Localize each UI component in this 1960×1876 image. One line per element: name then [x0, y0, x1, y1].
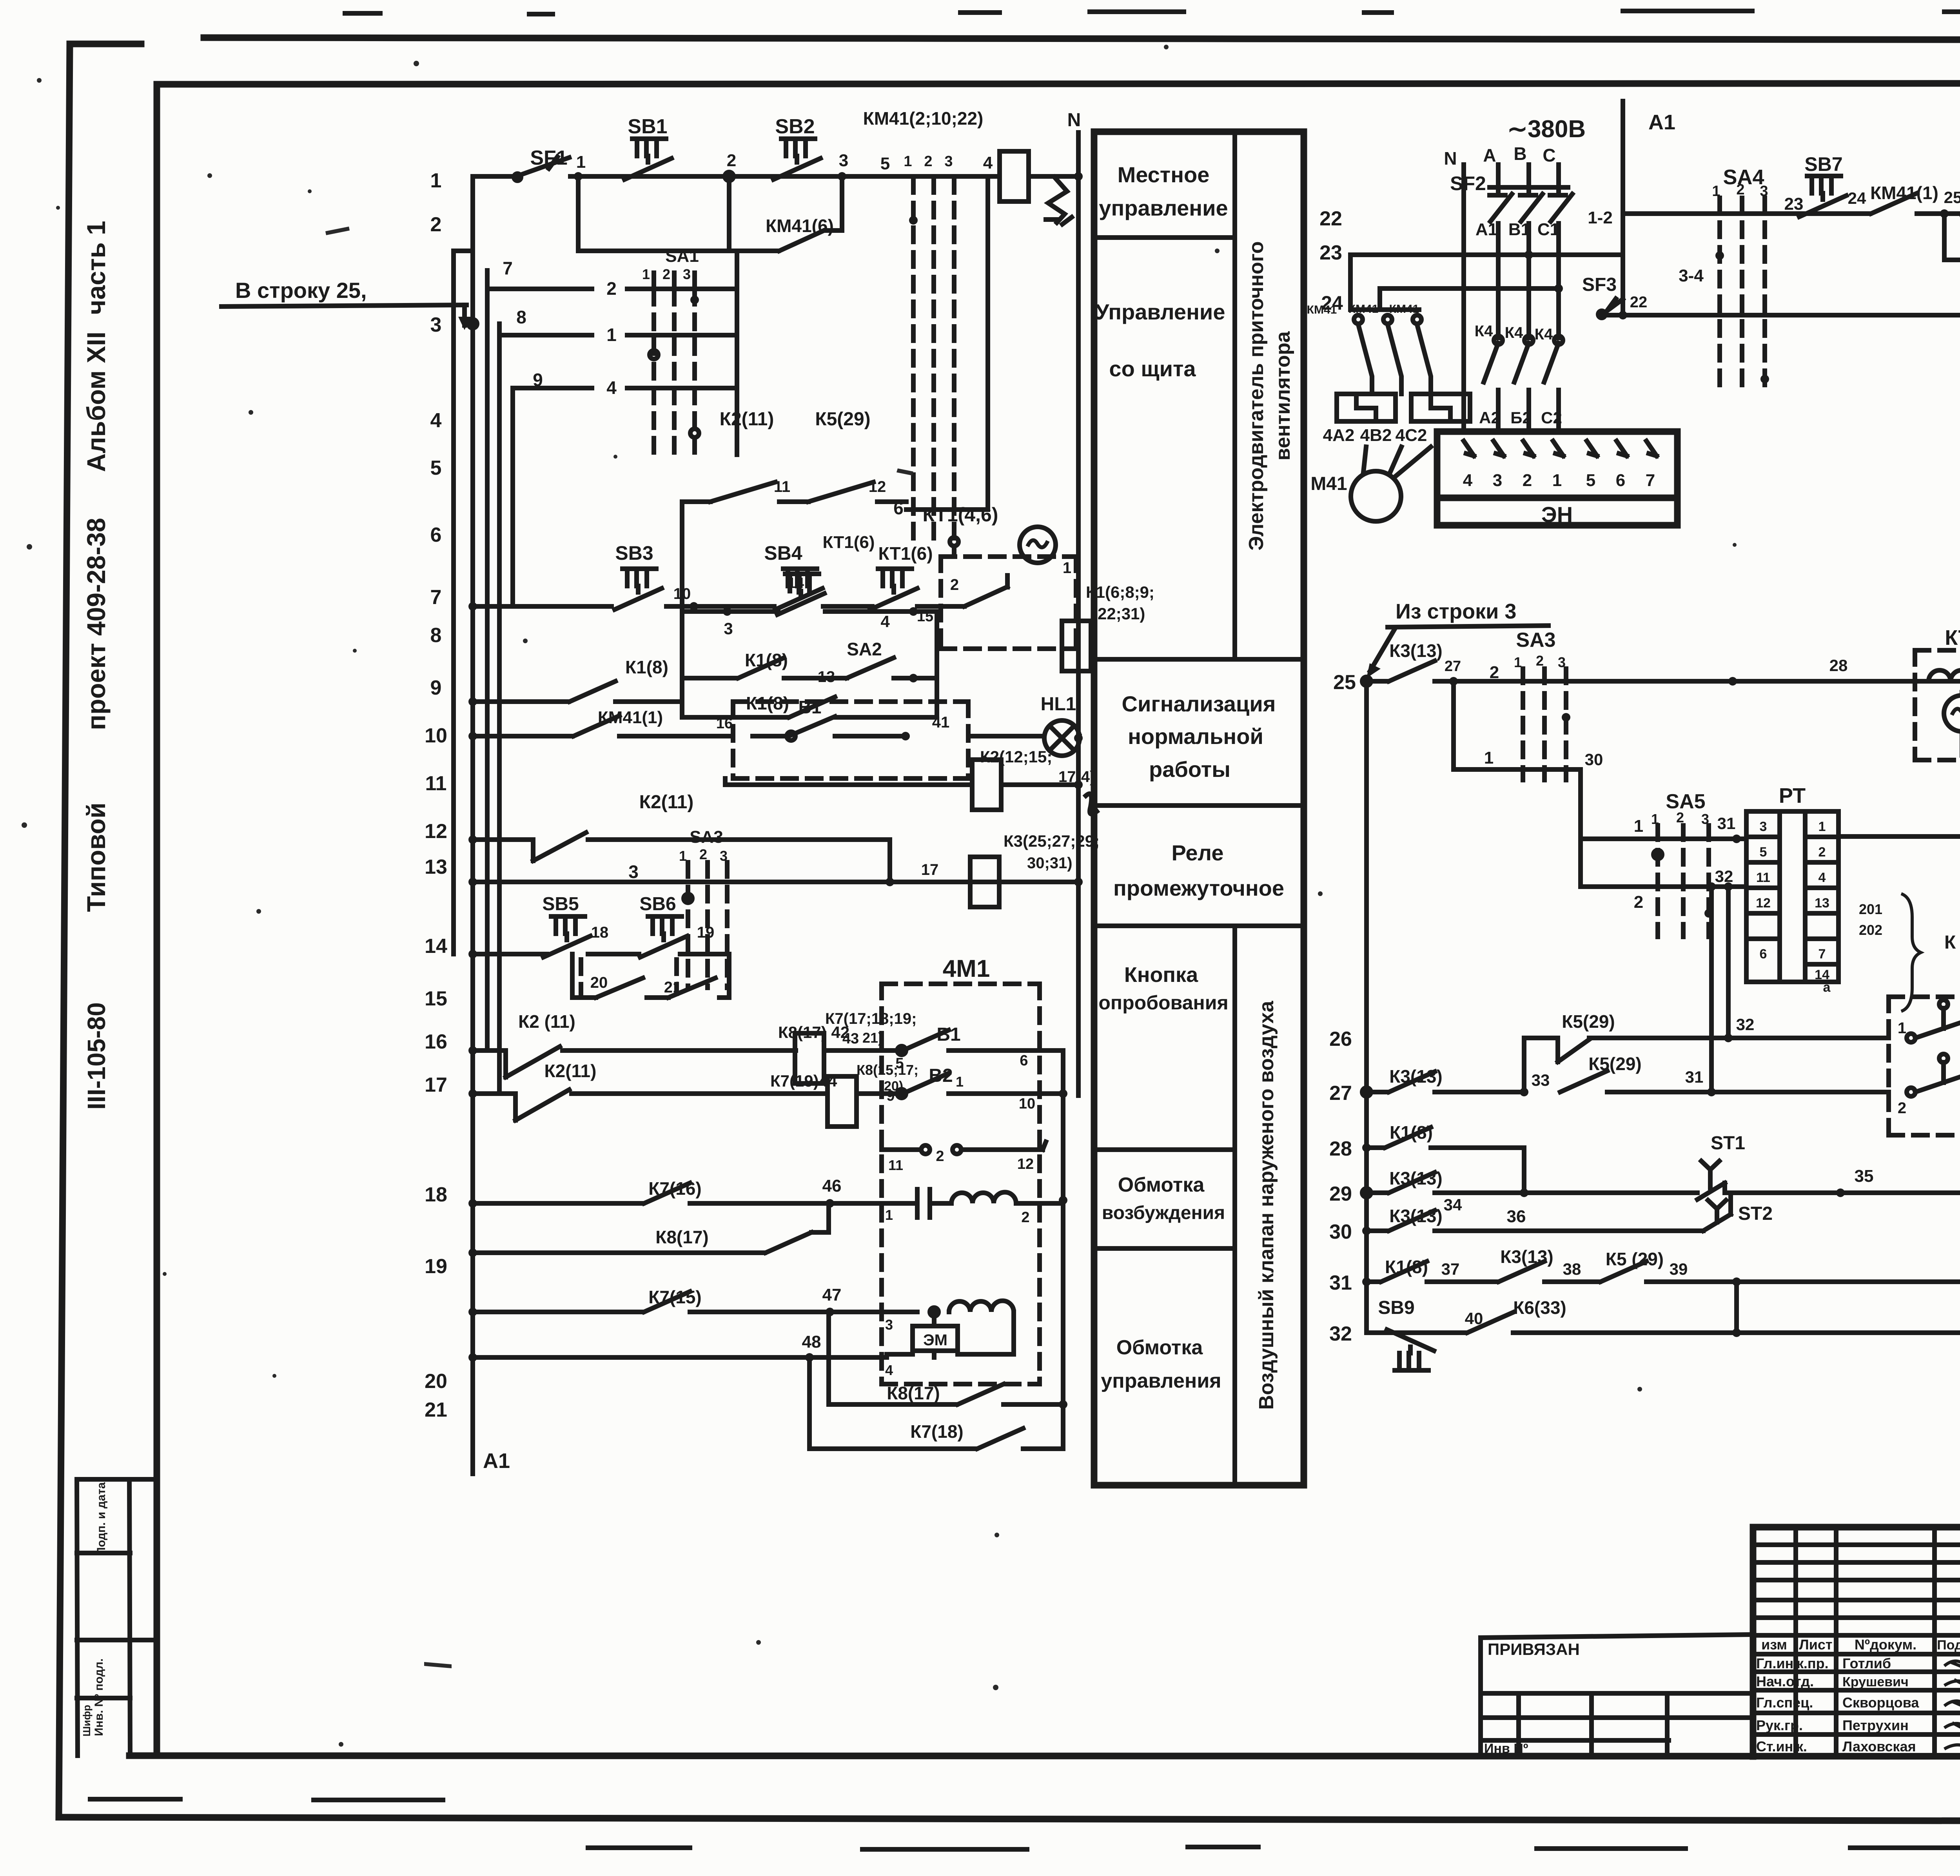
svg-text:22: 22	[1319, 207, 1342, 230]
svg-text:К6(33): К6(33)	[1513, 1297, 1566, 1318]
row 25 wire	[1367, 661, 1960, 681]
svg-text:Лист: Лист	[1799, 1637, 1832, 1653]
svg-text:К2(11): К2(11)	[639, 792, 694, 813]
svg-text:4: 4	[606, 377, 617, 398]
svg-text:43: 43	[842, 1031, 859, 1047]
svg-text:К2(12;15;: К2(12;15;	[980, 747, 1052, 766]
arrow to row 3	[462, 305, 467, 325]
svg-text:2: 2	[1536, 653, 1544, 669]
brace to sensor	[1901, 894, 1921, 1011]
svg-text:Подпись: Подпись	[1937, 1638, 1960, 1653]
svg-text:25: 25	[1333, 671, 1356, 694]
svg-text:Ст.инж.: Ст.инж.	[1756, 1738, 1807, 1754]
svg-text:Инв Nº: Инв Nº	[1484, 1741, 1528, 1756]
feeder A1 vertical	[1621, 101, 1625, 299]
verticals from PT to rows 26-27	[1711, 887, 1728, 1092]
svg-text:К5(29): К5(29)	[815, 409, 870, 430]
svg-text:35: 35	[1855, 1167, 1874, 1186]
svg-text:7: 7	[430, 586, 442, 609]
svg-text:К5 (29): К5 (29)	[1606, 1249, 1664, 1269]
svg-text:изм: изм	[1761, 1637, 1787, 1653]
svg-text:34: 34	[1444, 1196, 1462, 1214]
svg-text:управления: управления	[1101, 1370, 1221, 1392]
svg-text:31: 31	[1685, 1068, 1704, 1086]
svg-text:3: 3	[1493, 471, 1502, 490]
svg-text:В1: В1	[1508, 220, 1530, 239]
svg-text:26: 26	[1329, 1028, 1352, 1050]
svg-text:К4: К4	[1475, 323, 1493, 340]
svg-text:вентилятора: вентилятора	[1272, 331, 1294, 461]
svg-text:Альбом XII: Альбом XII	[82, 332, 111, 472]
svg-text:К8(15;17;: К8(15;17;	[857, 1062, 918, 1078]
svg-text:К1(8): К1(8)	[1390, 1122, 1433, 1143]
svg-text:опробования: опробования	[1098, 992, 1228, 1014]
svg-text:2: 2	[1818, 845, 1826, 860]
svg-text:SA2: SA2	[847, 639, 882, 659]
svg-text:1: 1	[642, 266, 650, 282]
svg-text:К3(13): К3(13)	[1500, 1246, 1553, 1267]
row 32 wire	[1367, 1312, 1960, 1333]
sheet outer border top line 1	[204, 38, 1960, 40]
row 7 wire	[468, 602, 477, 611]
row 19 wire 47	[468, 1308, 477, 1316]
row 27 wire	[1362, 1088, 1371, 1096]
svg-text:Скворцова: Скворцова	[1842, 1695, 1919, 1711]
svg-text:9: 9	[430, 677, 442, 699]
svg-text:Воздушный клапан наруженого во: Воздушный клапан наруженого воздуха	[1255, 1000, 1278, 1410]
svg-text:Петрухин: Петрухин	[1842, 1717, 1909, 1733]
svg-text:16: 16	[716, 715, 733, 732]
svg-text:27: 27	[1445, 658, 1461, 675]
inner drawing frame bottom	[129, 1756, 1960, 1756]
svg-text:2: 2	[1676, 809, 1684, 826]
svg-text:В строку 25,: В строку 25,	[235, 278, 367, 303]
svg-text:III-105-80: III-105-80	[82, 1002, 111, 1110]
svg-text:2: 2	[430, 213, 442, 236]
svg-text:14: 14	[425, 935, 447, 958]
KT2 AC element	[1944, 695, 1960, 731]
svg-text:41: 41	[932, 714, 950, 731]
phase verticals	[1461, 165, 1466, 432]
svg-text:6: 6	[1020, 1052, 1028, 1069]
svg-text:15: 15	[425, 987, 447, 1010]
svg-text:ST2: ST2	[1738, 1203, 1773, 1224]
motorised valve 4M1 dashed box (row10)	[733, 702, 968, 778]
svg-text:8: 8	[430, 624, 442, 647]
control winding inductor	[949, 1301, 1014, 1312]
svg-text:Нач.отд.: Нач.отд.	[1756, 1673, 1814, 1689]
middle legend column frame	[1094, 132, 1304, 1485]
svg-text:Рук.гр.: Рук.гр.	[1756, 1717, 1803, 1733]
svg-text:32: 32	[1736, 1015, 1755, 1034]
svg-text:ПРИВЯЗАН: ПРИВЯЗАН	[1488, 1640, 1580, 1658]
svg-text:РТ: РТ	[1779, 784, 1806, 807]
revision table grid	[1753, 1545, 1960, 1734]
svg-text:SB3: SB3	[615, 542, 653, 564]
svg-text:14: 14	[788, 575, 804, 591]
svg-text:7: 7	[503, 258, 513, 278]
left bus (right schema)	[1364, 681, 1369, 1333]
return vertical wire	[1061, 1050, 1065, 1449]
svg-text:проект 409-28-38: проект 409-28-38	[82, 518, 111, 730]
svg-text:часть 1: часть 1	[82, 221, 111, 315]
svg-text:1: 1	[1634, 816, 1643, 836]
svg-text:К1(8): К1(8)	[625, 657, 668, 677]
row 5 wire	[682, 609, 937, 614]
svg-text:К3(13): К3(13)	[1389, 640, 1442, 661]
svg-text:12: 12	[1756, 896, 1771, 911]
svg-text:11: 11	[888, 1157, 903, 1173]
svg-text:SВ6: SВ6	[639, 894, 676, 914]
heater block EN	[1437, 432, 1677, 525]
legend divider vertical (upper rotated cell)	[1232, 132, 1237, 1485]
svg-text:22: 22	[1630, 294, 1648, 311]
svg-text:48: 48	[802, 1332, 821, 1352]
svg-text:201: 201	[1859, 901, 1882, 917]
svg-text:КМ41(1): КМ41(1)	[1870, 183, 1938, 203]
svg-text:3: 3	[628, 862, 639, 882]
sheet outer border bottom	[59, 1817, 1960, 1822]
svg-text:КМ41(2;10;22): КМ41(2;10;22)	[863, 108, 984, 129]
svg-text:17: 17	[921, 861, 939, 878]
svg-text:Б2: Б2	[1510, 408, 1532, 427]
svg-text:31: 31	[1717, 814, 1736, 833]
svg-text:К4: К4	[1505, 324, 1523, 341]
svg-text:19: 19	[697, 924, 715, 941]
svg-text:ST1: ST1	[1711, 1133, 1745, 1154]
svg-text:1: 1	[885, 1207, 893, 1223]
svg-text:К3(13): К3(13)	[1389, 1066, 1442, 1087]
svg-text:А1: А1	[483, 1449, 510, 1473]
svg-text:17: 17	[425, 1074, 447, 1096]
svg-text:7: 7	[1818, 947, 1826, 962]
svg-text:К1(8): К1(8)	[1385, 1257, 1428, 1277]
svg-text:18: 18	[425, 1183, 447, 1206]
svg-text:24: 24	[1848, 189, 1866, 207]
svg-text:3: 3	[724, 619, 733, 638]
svg-text:Подп. и дата: Подп. и дата	[95, 1482, 108, 1556]
svg-text:SB7: SB7	[1804, 153, 1842, 175]
svg-text:3: 3	[430, 314, 442, 336]
svg-text:промежуточное: промежуточное	[1113, 876, 1284, 900]
svg-text:Гл.спец.: Гл.спец.	[1756, 1695, 1813, 1711]
svg-text:5: 5	[430, 457, 442, 479]
legend box: Кнопка опробования	[1094, 1147, 1235, 1152]
selector SA1 dashed columns	[913, 178, 954, 549]
svg-text:SA3: SA3	[690, 827, 723, 847]
nested vertical feeders	[454, 251, 473, 954]
svg-text:2: 2	[606, 278, 617, 299]
svg-text:возбуждения: возбуждения	[1102, 1203, 1225, 1223]
svg-text:Шифр: Шифр	[81, 1705, 93, 1736]
svg-text:КТ1(4,6): КТ1(4,6)	[923, 504, 998, 526]
svg-text:39: 39	[1670, 1260, 1688, 1278]
node N row1	[1074, 172, 1083, 181]
svg-text:N: N	[1067, 110, 1081, 131]
scan artifact: top edge broken line	[345, 11, 1960, 14]
svg-text:2: 2	[662, 266, 670, 282]
svg-text:управление: управление	[1099, 196, 1228, 220]
svg-text:SА5: SА5	[1666, 790, 1705, 813]
svg-text:SB9: SB9	[1378, 1297, 1414, 1318]
row 26 wire	[1589, 1036, 1889, 1040]
svg-text:Обмотка: Обмотка	[1118, 1174, 1205, 1196]
svg-text:21: 21	[425, 1399, 447, 1421]
svg-text:Сигнализация: Сигнализация	[1122, 691, 1276, 716]
svg-text:М41: М41	[1310, 474, 1347, 494]
svg-text:10: 10	[1019, 1096, 1035, 1112]
svg-text:ЭН: ЭН	[1541, 502, 1573, 527]
svg-text:К2(11): К2(11)	[544, 1061, 597, 1081]
EN terminals with arrows	[1464, 441, 1657, 456]
svg-text:37: 37	[1441, 1260, 1460, 1278]
svg-text:SF3: SF3	[1582, 274, 1617, 295]
svg-text:36: 36	[1507, 1207, 1526, 1226]
svg-text:33: 33	[1532, 1071, 1550, 1089]
svg-text:2: 2	[1021, 1209, 1029, 1226]
svg-text:Управление: Управление	[1096, 299, 1225, 324]
svg-text:4С2: 4С2	[1396, 426, 1427, 445]
svg-text:Из строки 3: Из строки 3	[1396, 600, 1516, 623]
svg-text:К датчику: К датчику	[1944, 932, 1960, 953]
svg-text:3: 3	[683, 266, 691, 282]
title block outer frame	[1753, 1527, 1960, 1756]
svg-text:10: 10	[425, 724, 447, 747]
svg-text:Местное: Местное	[1118, 162, 1210, 187]
sheet outer border top line 2	[70, 44, 1960, 84]
legend box: Управление со щита	[1094, 657, 1304, 662]
legend box: Местное управление	[1094, 235, 1235, 240]
svg-text:3: 3	[885, 1317, 893, 1333]
svg-text:2: 2	[1898, 1099, 1906, 1117]
svg-text:40: 40	[1465, 1309, 1483, 1328]
svg-text:4В2: 4В2	[1360, 426, 1392, 445]
svg-text:КТ2: КТ2	[1945, 626, 1960, 650]
svg-text:Готлиб: Готлиб	[1842, 1655, 1891, 1671]
svg-text:2: 2	[936, 1148, 944, 1165]
svg-text:С: С	[1543, 145, 1555, 165]
svg-text:Обмотка: Обмотка	[1116, 1336, 1203, 1359]
svg-text:15: 15	[917, 608, 933, 625]
svg-text:Лаховская: Лаховская	[1842, 1738, 1916, 1754]
svg-text:К1(6;8;9;: К1(6;8;9;	[1086, 583, 1154, 601]
solenoid EM	[913, 1326, 958, 1351]
svg-text:5: 5	[880, 154, 890, 173]
svg-text:30: 30	[1329, 1221, 1352, 1243]
svg-text:1-2: 1-2	[1588, 208, 1613, 227]
svg-text:нормальной: нормальной	[1128, 724, 1263, 749]
svg-text:13: 13	[425, 856, 447, 878]
svg-text:1: 1	[1552, 471, 1562, 490]
bracket rows 26-27	[1524, 1038, 1558, 1092]
block right edge	[578, 180, 737, 455]
svg-text:1: 1	[956, 1074, 964, 1090]
svg-text:2: 2	[1523, 471, 1532, 490]
svg-text:Электродвигатель приточного: Электродвигатель приточного	[1245, 241, 1268, 550]
svg-text:С2: С2	[1541, 408, 1562, 427]
svg-text:∼380В: ∼380В	[1507, 116, 1586, 143]
svg-text:К2(11): К2(11)	[720, 409, 774, 430]
svg-text:SB1: SB1	[628, 115, 667, 138]
svg-text:Кнопка: Кнопка	[1124, 963, 1198, 987]
svg-text:работы: работы	[1149, 757, 1230, 782]
svg-text:К7(18): К7(18)	[910, 1421, 963, 1442]
wire row 1	[473, 174, 517, 179]
svg-text:31: 31	[1329, 1272, 1352, 1294]
svg-text:1: 1	[1484, 748, 1494, 767]
legend box: Обмотка возбуждения	[1094, 1246, 1235, 1251]
svg-text:SB5: SB5	[542, 894, 579, 914]
svg-text:К2 (11): К2 (11)	[518, 1011, 575, 1032]
svg-text:2: 2	[1736, 181, 1744, 198]
row 30 wire	[1362, 1226, 1371, 1235]
svg-text:6: 6	[430, 524, 442, 546]
svg-text:А: А	[1483, 145, 1496, 165]
svg-text:КТ1(6): КТ1(6)	[878, 543, 933, 564]
svg-text:23: 23	[1784, 194, 1804, 214]
svg-text:К5(29): К5(29)	[1588, 1054, 1641, 1074]
tie wire to C phase	[1380, 286, 1559, 291]
svg-text:12: 12	[1017, 1156, 1034, 1172]
svg-text:SА3: SА3	[1516, 629, 1555, 651]
sheet outer border left	[59, 44, 70, 1817]
svg-text:Типовой: Типовой	[82, 802, 111, 912]
svg-text:2: 2	[924, 153, 932, 170]
svg-text:а: а	[1823, 980, 1831, 995]
svg-text:28: 28	[1829, 656, 1848, 675]
svg-text:202: 202	[1859, 922, 1882, 938]
svg-text:2: 2	[1490, 663, 1499, 682]
svg-text:4: 4	[880, 612, 890, 631]
svg-text:Крушевич: Крушевич	[1842, 1675, 1909, 1689]
svg-text:Реле: Реле	[1171, 840, 1223, 865]
svg-text:10: 10	[673, 585, 691, 602]
svg-text:4: 4	[430, 409, 442, 432]
selector SA1 bottom plug	[950, 537, 958, 546]
svg-text:6: 6	[1760, 947, 1767, 962]
svg-text:2: 2	[1634, 893, 1643, 912]
AC source circle in KT1 box	[1020, 527, 1056, 563]
row 29 wire	[1362, 1188, 1371, 1197]
KT2 heater winding	[1929, 670, 1960, 681]
KT2 output wire to PT	[1838, 731, 1960, 836]
svg-text:4: 4	[1463, 471, 1473, 490]
svg-text:5: 5	[1760, 845, 1767, 860]
svg-text:Гл.инж.пр.: Гл.инж.пр.	[1756, 1655, 1829, 1671]
svg-text:5: 5	[1586, 471, 1595, 490]
svg-text:К3(13): К3(13)	[1389, 1168, 1442, 1188]
svg-text:А2: А2	[1479, 408, 1500, 427]
svg-text:1: 1	[430, 169, 442, 192]
svg-text:32: 32	[1715, 867, 1733, 885]
svg-text:4: 4	[885, 1362, 893, 1378]
svg-text:НL1: НL1	[1041, 694, 1076, 715]
svg-text:ЭМ: ЭМ	[923, 1332, 947, 1349]
row 31 wire	[1362, 1277, 1371, 1286]
svg-text:30;31): 30;31)	[1027, 855, 1073, 872]
legend box: Реле промежуточное	[1094, 923, 1304, 928]
svg-text:28: 28	[1329, 1138, 1352, 1160]
svg-text:со щита: со щита	[1109, 356, 1196, 381]
svg-text:12: 12	[425, 820, 447, 843]
svg-text:25: 25	[1944, 188, 1960, 207]
svg-text:К4: К4	[1535, 326, 1553, 343]
svg-text:N: N	[1444, 148, 1457, 169]
svg-text:SF2: SF2	[1450, 172, 1486, 194]
tie wire row 23	[1350, 252, 1623, 257]
svg-text:19: 19	[425, 1255, 447, 1278]
svg-text:1: 1	[904, 153, 912, 170]
svg-text:47: 47	[822, 1285, 842, 1304]
svg-text:20: 20	[425, 1370, 447, 1393]
svg-text:К8(17): К8(17)	[887, 1383, 940, 1403]
row 19b wire 48	[468, 1353, 477, 1362]
svg-text:1: 1	[576, 152, 586, 172]
svg-text:А1: А1	[1475, 220, 1497, 239]
svg-text:К7(16): К7(16)	[648, 1178, 701, 1199]
svg-text:2: 2	[727, 151, 736, 170]
svg-text:К3(13): К3(13)	[1389, 1206, 1442, 1226]
svg-text:КМ41(1): КМ41(1)	[598, 708, 663, 727]
cluster verticals	[682, 502, 937, 717]
svg-text:1: 1	[1063, 559, 1071, 577]
thermal overload heaters	[1337, 394, 1396, 421]
svg-text:22;31): 22;31)	[1098, 604, 1145, 623]
svg-text:2: 2	[699, 846, 707, 862]
capacitor	[917, 1189, 930, 1217]
svg-text:1: 1	[1818, 819, 1826, 834]
svg-text:38: 38	[1563, 1260, 1581, 1278]
svg-text:30: 30	[1585, 750, 1603, 769]
svg-text:А1: А1	[1648, 111, 1675, 134]
svg-text:В: В	[1514, 143, 1526, 164]
svg-text:К7(15): К7(15)	[648, 1287, 701, 1307]
привязан attach table	[1481, 1635, 1753, 1756]
svg-text:4: 4	[1818, 870, 1826, 885]
svg-text:SB2: SB2	[775, 115, 815, 138]
svg-text:SВ4: SВ4	[764, 542, 802, 564]
svg-text:27: 27	[1329, 1082, 1352, 1105]
svg-text:32: 32	[1329, 1323, 1352, 1345]
svg-text:К7(17;18;19;: К7(17;18;19;	[825, 1010, 916, 1027]
svg-text:4А2: 4А2	[1323, 426, 1355, 445]
signature squiggles	[1944, 1661, 1960, 1751]
svg-text:К5(29): К5(29)	[1562, 1011, 1615, 1032]
svg-text:7: 7	[1646, 471, 1655, 490]
svg-text:13: 13	[1815, 896, 1829, 911]
svg-text:К8(17): К8(17)	[655, 1227, 708, 1247]
svg-text:11: 11	[425, 772, 447, 795]
svg-text:23: 23	[1319, 241, 1342, 264]
SA5 feeder wires	[1581, 769, 1746, 887]
svg-text:1: 1	[606, 325, 617, 345]
bottom-left service table	[77, 1479, 157, 1756]
svg-text:3: 3	[839, 151, 848, 170]
svg-text:С1: С1	[1537, 220, 1559, 239]
svg-text:3: 3	[944, 153, 953, 170]
svg-text:К3(25;27;29;: К3(25;27;29;	[1004, 832, 1100, 850]
svg-text:8: 8	[516, 307, 526, 327]
svg-text:3-4: 3-4	[1679, 266, 1704, 285]
svg-text:11: 11	[1756, 870, 1770, 885]
svg-text:3: 3	[1760, 819, 1767, 834]
svg-text:2: 2	[950, 576, 959, 593]
scan artifact: bottom dashes	[90, 1799, 1960, 1849]
svg-text:КТ1(6): КТ1(6)	[822, 533, 875, 552]
svg-text:29: 29	[1329, 1183, 1352, 1205]
svg-text:4: 4	[983, 153, 993, 172]
svg-text:4М1: 4М1	[943, 955, 990, 982]
